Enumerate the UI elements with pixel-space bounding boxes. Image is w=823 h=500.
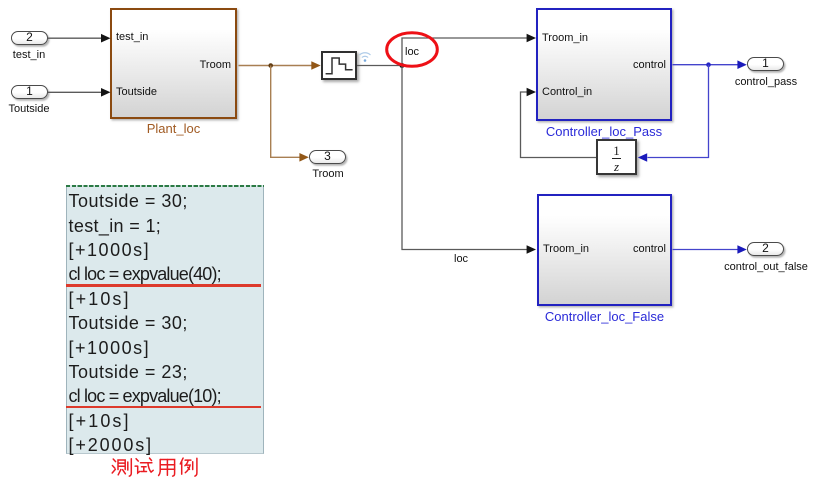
label Controller_loc_False [537,309,672,324]
label Toutside [1,103,57,115]
node label loc (upper) [405,46,419,58]
red CJK caption 测试用例 [112,458,197,476]
wire control output to outport 1 (blue) [673,60,747,69]
red ellipse highlight on loc [387,33,438,67]
red underline 2 [66,406,261,408]
junction Troom branch [268,63,273,68]
wire Toutside to Plant_loc [48,88,111,97]
annotation dashed top border [66,185,264,187]
subsystem Plant_loc [110,8,237,119]
label test_in [1,49,57,61]
label Controller_loc_Pass [536,124,672,139]
unit delay 1/z [596,139,637,175]
red underline 1 [66,284,261,286]
subsystem Controller_loc_Pass [536,8,672,121]
wire signal editor to junction [357,65,402,67]
wireless badge [360,53,371,62]
annotation text [69,189,269,457]
char shi [135,458,153,473]
outport 3 Troom [309,150,346,164]
label control_out_false [715,261,817,273]
inport 1 Toutside [11,85,48,99]
outport 2 control_out_false [747,242,784,256]
junction loc [400,63,405,68]
signal editor icon [326,58,353,74]
node label loc (lower) [454,253,468,265]
wire Troom branch down to outport 3 (brown) [271,66,309,162]
annotation box test script [66,185,264,454]
signal editor block [321,51,357,80]
label control_pass [725,76,807,88]
wire feedback down to unit delay (blue) [638,65,709,162]
wire junction down to Controller_loc_False Troom_in [402,66,536,254]
label Troom [299,168,357,180]
junction control feedback [706,62,711,67]
char yong [159,460,175,477]
wire False control to outport 2 (blue) [673,245,747,254]
wire junction up to Controller_loc_Pass Troom_in [402,34,536,66]
outport 1 control_pass [747,57,784,71]
wire unit delay output to Control_in [521,88,597,158]
wire Troom output (brown) [239,61,321,70]
inport 2 test_in [11,31,48,45]
char li [180,458,197,476]
wire test_in to Plant_loc [48,34,111,43]
label Plant_loc [110,121,237,136]
char ce [112,459,131,476]
subsystem Controller_loc_False [537,194,672,306]
